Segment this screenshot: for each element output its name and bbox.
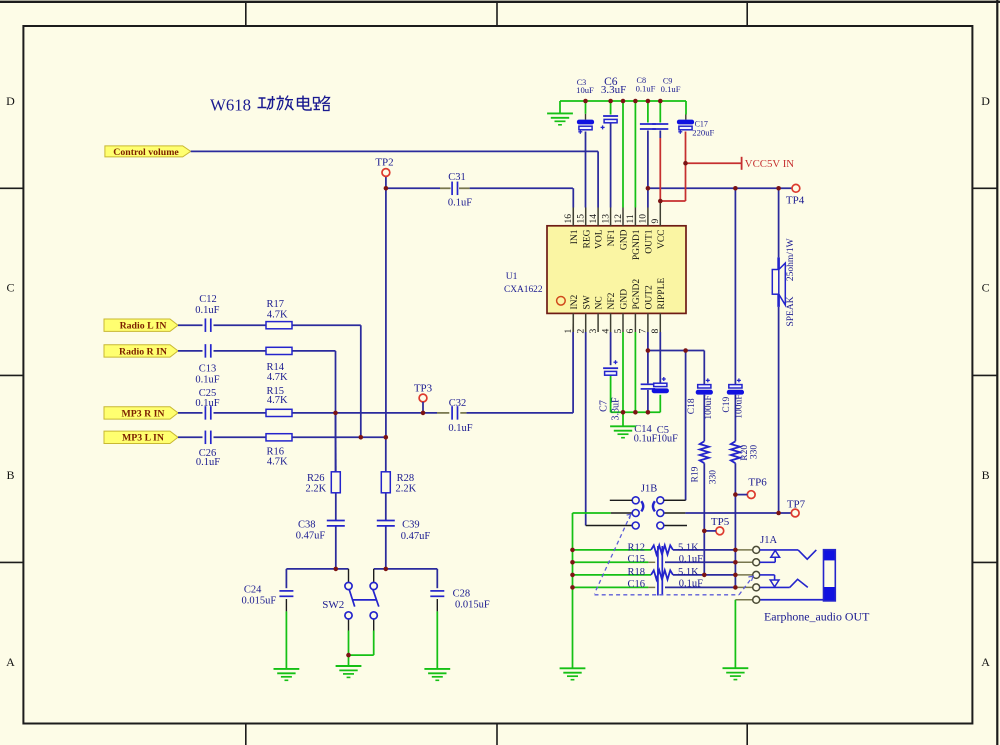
resistor R12 bbox=[627, 542, 699, 554]
svg-text:8: 8 bbox=[651, 329, 661, 334]
test point TP7 bbox=[787, 499, 806, 517]
svg-text:10uF: 10uF bbox=[657, 433, 678, 444]
svg-text:0.47uF: 0.47uF bbox=[296, 531, 326, 542]
svg-text:C32: C32 bbox=[449, 398, 467, 409]
svg-text:VOL: VOL bbox=[595, 229, 605, 249]
svg-text:16: 16 bbox=[564, 214, 574, 224]
svg-text:R17: R17 bbox=[266, 299, 284, 310]
svg-text:TP3: TP3 bbox=[414, 383, 433, 395]
svg-text:NF1: NF1 bbox=[607, 229, 617, 246]
wire TP2 vertical bbox=[385, 177, 387, 438]
capacitor C17 bbox=[677, 119, 715, 137]
svg-text:PGND1: PGND1 bbox=[632, 229, 642, 260]
capacitor C25 bbox=[195, 388, 219, 419]
svg-text:5: 5 bbox=[614, 329, 624, 334]
resistor R16 bbox=[266, 434, 292, 468]
wire OUT2 to J1B row1 bbox=[664, 351, 686, 501]
svg-text:4.7K: 4.7K bbox=[267, 395, 288, 406]
wire green GND row bbox=[611, 395, 661, 427]
svg-text:2.2K: 2.2K bbox=[396, 484, 417, 495]
svg-text:15: 15 bbox=[577, 214, 587, 224]
wire C19-R20 bbox=[734, 395, 736, 588]
svg-text:0.015uF: 0.015uF bbox=[455, 600, 490, 611]
resistor R17 bbox=[266, 299, 292, 329]
svg-text:0.1uF: 0.1uF bbox=[195, 375, 219, 386]
connector J1B bbox=[610, 484, 686, 529]
label Earphone_audio OUT bbox=[764, 610, 870, 624]
svg-text:C12: C12 bbox=[199, 294, 217, 305]
svg-text:3.3uF: 3.3uF bbox=[601, 84, 626, 96]
wire C6 to pin13 bbox=[610, 101, 612, 208]
wire pin16 stub bbox=[572, 208, 574, 226]
svg-text:R19: R19 bbox=[690, 466, 700, 482]
wire Control volume to pin14 bbox=[191, 151, 598, 207]
wire pin11 PGND1 bbox=[634, 101, 636, 208]
wire pin7 OUT2 bbox=[647, 332, 649, 412]
wire SW2 right net bbox=[374, 569, 438, 588]
svg-text:U1: U1 bbox=[506, 271, 518, 282]
wire RadioR row bbox=[178, 350, 266, 352]
svg-text:4.7K: 4.7K bbox=[267, 372, 288, 383]
wire C18-R19 bbox=[703, 395, 705, 575]
svg-text:MP3 R IN: MP3 R IN bbox=[122, 408, 165, 419]
svg-text:0.1uF: 0.1uF bbox=[679, 579, 703, 590]
svg-text:SPEAK: SPEAK bbox=[786, 296, 796, 326]
wire pin8 RIPPLE to C5 bbox=[659, 332, 661, 383]
wire C19 column top bbox=[734, 188, 736, 384]
svg-text:SW2: SW2 bbox=[322, 599, 344, 611]
svg-text:0.1uF: 0.1uF bbox=[195, 398, 219, 409]
wire MP3R row bbox=[178, 332, 573, 413]
svg-text:25ohm/1W: 25ohm/1W bbox=[786, 238, 796, 281]
capacitor C5 bbox=[652, 377, 678, 444]
wire green left column bbox=[572, 513, 574, 668]
svg-text:11: 11 bbox=[626, 214, 636, 223]
wire SW2 left net bbox=[286, 569, 348, 588]
wire olive stubs C32 bbox=[437, 412, 466, 414]
svg-text:RIPPLE: RIPPLE bbox=[657, 278, 667, 310]
wire speaker bottom bbox=[778, 307, 780, 513]
svg-text:TP5: TP5 bbox=[711, 516, 730, 528]
svg-text:NC: NC bbox=[595, 296, 605, 309]
wire C28 ground bbox=[436, 599, 438, 669]
wire C9 red VCC bbox=[660, 101, 741, 201]
capacitor C24 bbox=[242, 584, 294, 606]
wire RadioL vertical bbox=[292, 325, 361, 437]
svg-text:C: C bbox=[982, 281, 990, 295]
wire olive stubs C31 bbox=[440, 187, 470, 189]
svg-text:C39: C39 bbox=[402, 520, 420, 531]
capacitor C15 bbox=[627, 546, 703, 596]
svg-text:0.1uF: 0.1uF bbox=[634, 433, 658, 444]
svg-text:OUT1: OUT1 bbox=[645, 229, 655, 254]
port Control volume bbox=[105, 146, 191, 158]
wire OUT2 horizontal row bbox=[648, 351, 704, 385]
svg-text:Radio L IN: Radio L IN bbox=[120, 321, 167, 332]
capacitor C12 bbox=[195, 294, 219, 332]
svg-text:IN2: IN2 bbox=[570, 294, 580, 309]
svg-text:330: 330 bbox=[709, 470, 719, 485]
port Radio L IN bbox=[104, 319, 178, 332]
svg-text:2: 2 bbox=[577, 329, 587, 334]
svg-text:100uF: 100uF bbox=[704, 395, 714, 419]
svg-text:100uF: 100uF bbox=[735, 394, 745, 418]
resistor R19 bbox=[690, 441, 718, 484]
wire C3 to pin15 bbox=[585, 101, 587, 208]
svg-text:D: D bbox=[981, 94, 990, 108]
capacitor C16 bbox=[627, 579, 703, 590]
resistor R14 bbox=[266, 347, 292, 383]
wire pin1 stub bbox=[572, 313, 574, 332]
resistor R18 bbox=[627, 567, 699, 580]
test point TP6 bbox=[735, 477, 767, 499]
svg-text:0.1uF: 0.1uF bbox=[195, 305, 219, 316]
svg-text:330: 330 bbox=[750, 445, 760, 460]
svg-text:3: 3 bbox=[589, 329, 599, 334]
svg-text:C13: C13 bbox=[199, 363, 217, 374]
svg-text:C19: C19 bbox=[722, 397, 732, 413]
svg-text:TP6: TP6 bbox=[748, 477, 767, 489]
wire pin12 GND bbox=[622, 101, 624, 208]
svg-text:GND: GND bbox=[620, 229, 630, 250]
capacitor C14 bbox=[634, 384, 658, 444]
svg-text:W618: W618 bbox=[210, 96, 251, 115]
port MP3 L IN bbox=[104, 431, 178, 444]
resistor R20 bbox=[731, 441, 760, 463]
svg-text:C7: C7 bbox=[598, 400, 609, 412]
svg-text:C38: C38 bbox=[298, 520, 316, 531]
svg-text:0.1uF: 0.1uF bbox=[196, 457, 220, 468]
capacitor C38 bbox=[296, 520, 345, 542]
svg-text:C15: C15 bbox=[627, 554, 645, 565]
svg-text:C16: C16 bbox=[627, 579, 645, 590]
svg-text:VCC5V IN: VCC5V IN bbox=[745, 158, 794, 170]
svg-text:C: C bbox=[6, 281, 14, 295]
wire green rail bbox=[560, 101, 686, 120]
wire R28 chain bbox=[385, 437, 387, 569]
svg-text:R26: R26 bbox=[307, 473, 325, 484]
svg-text:5.1K: 5.1K bbox=[678, 567, 699, 578]
svg-text:2.2K: 2.2K bbox=[306, 484, 327, 495]
svg-text:J1A: J1A bbox=[760, 535, 777, 546]
svg-text:10: 10 bbox=[639, 214, 649, 224]
capacitor C32 bbox=[448, 398, 472, 434]
connector J1A bbox=[753, 535, 836, 603]
svg-text:B: B bbox=[982, 468, 990, 482]
svg-text:A: A bbox=[981, 655, 990, 669]
power port VCC5V IN bbox=[742, 157, 795, 170]
switch SW2 bbox=[322, 582, 379, 619]
svg-text:220uF: 220uF bbox=[692, 128, 714, 138]
test point TP4 bbox=[786, 184, 805, 206]
svg-text:Radio R IN: Radio R IN bbox=[119, 346, 167, 357]
wire row D bbox=[573, 586, 753, 588]
wire pin2 SW to J1B bbox=[586, 332, 633, 526]
capacitor C28 bbox=[430, 588, 490, 610]
svg-text:Control volume: Control volume bbox=[113, 147, 179, 158]
wire C24 ground bbox=[285, 599, 287, 669]
capacitor C39 bbox=[377, 520, 431, 543]
wire pin5 GND bbox=[622, 332, 624, 412]
svg-text:TP7: TP7 bbox=[787, 499, 806, 511]
resistor R15 bbox=[266, 386, 292, 417]
svg-text:7: 7 bbox=[639, 329, 649, 334]
svg-text:R12: R12 bbox=[627, 542, 645, 553]
wire row E bbox=[735, 600, 823, 668]
svg-text:TP2: TP2 bbox=[375, 157, 393, 169]
svg-text:0.1uF: 0.1uF bbox=[448, 198, 472, 209]
wire J1B row3 right stub bbox=[664, 525, 687, 527]
svg-text:MP3 L IN: MP3 L IN bbox=[122, 433, 164, 444]
wire R26 chain bbox=[335, 413, 337, 569]
svg-text:VCC: VCC bbox=[657, 230, 667, 250]
svg-text:C28: C28 bbox=[453, 588, 471, 599]
wire RadioR vertical bbox=[292, 351, 336, 472]
svg-text:5.1K: 5.1K bbox=[678, 542, 699, 553]
speaker SPEAK 25ohm/1W bbox=[772, 238, 796, 326]
ground under J1A bbox=[723, 668, 749, 679]
ground under SW2 bbox=[336, 666, 362, 677]
capacitor C19 bbox=[722, 378, 744, 418]
svg-text:4: 4 bbox=[601, 329, 611, 334]
svg-text:A: A bbox=[6, 655, 15, 669]
svg-text:R28: R28 bbox=[397, 473, 415, 484]
capacitor C7 bbox=[598, 360, 621, 420]
wire pin4 NF2 to C7 bbox=[610, 332, 612, 412]
svg-text:3.3uF: 3.3uF bbox=[611, 397, 622, 421]
ground under C24 bbox=[274, 669, 300, 680]
capacitor C13 bbox=[195, 344, 219, 385]
wire speaker top bbox=[778, 188, 780, 257]
capacitor C8 bbox=[636, 76, 656, 129]
svg-text:J1B: J1B bbox=[641, 484, 657, 495]
svg-text:PGND2: PGND2 bbox=[632, 279, 642, 310]
ground under C28 bbox=[424, 669, 450, 680]
wire MP3L row bbox=[178, 436, 386, 438]
svg-text:12: 12 bbox=[614, 214, 624, 224]
test point TP2 bbox=[375, 157, 393, 177]
svg-text:IN1: IN1 bbox=[570, 229, 580, 244]
resistor R28 bbox=[381, 472, 416, 495]
wire SW2 bottom bbox=[349, 619, 374, 666]
wire row A bbox=[573, 549, 753, 551]
svg-text:OUT2: OUT2 bbox=[645, 285, 655, 310]
svg-text:C31: C31 bbox=[448, 172, 466, 183]
svg-text:6: 6 bbox=[626, 329, 636, 334]
port Radio R IN bbox=[104, 345, 178, 358]
capacitor C31 bbox=[448, 172, 472, 209]
port MP3 R IN bbox=[104, 407, 178, 420]
svg-text:0.1uF: 0.1uF bbox=[636, 83, 656, 93]
ground under C7 row bbox=[610, 426, 636, 437]
svg-text:R20: R20 bbox=[740, 445, 750, 461]
svg-text:B: B bbox=[6, 468, 14, 482]
svg-text:0.1uF: 0.1uF bbox=[448, 423, 472, 434]
wire J1B row2 left bbox=[573, 512, 633, 514]
svg-text:9: 9 bbox=[651, 219, 661, 224]
svg-text:SW: SW bbox=[582, 295, 592, 309]
capacitor C9 bbox=[652, 77, 680, 129]
wire TP2 net y188 bbox=[386, 188, 573, 207]
svg-text:13: 13 bbox=[601, 214, 611, 224]
zone letters D C B A bbox=[6, 94, 990, 669]
capacitor C3 bbox=[576, 78, 594, 134]
svg-text:Earphone_audio OUT: Earphone_audio OUT bbox=[764, 610, 870, 624]
svg-text:D: D bbox=[6, 94, 15, 108]
test point TP3 bbox=[414, 383, 433, 413]
svg-text:TP4: TP4 bbox=[786, 195, 805, 207]
ground top rail bbox=[547, 113, 573, 124]
wire RadioL row bbox=[178, 324, 266, 326]
test point TP5 bbox=[704, 516, 729, 535]
wire row C bbox=[573, 574, 753, 576]
dashed link switch to jack bbox=[595, 514, 754, 595]
svg-text:CXA1622: CXA1622 bbox=[504, 285, 543, 295]
svg-text:REG: REG bbox=[582, 229, 592, 248]
ground left column bbox=[560, 668, 586, 679]
svg-text:GND: GND bbox=[620, 289, 630, 310]
capacitor C18 bbox=[687, 378, 714, 419]
title W618 amplifier circuit bbox=[210, 96, 330, 115]
svg-text:0.1uF: 0.1uF bbox=[679, 554, 703, 565]
svg-text:4.7K: 4.7K bbox=[267, 456, 288, 467]
wire row B bbox=[573, 561, 753, 563]
svg-text:0.015uF: 0.015uF bbox=[242, 596, 277, 607]
svg-text:C18: C18 bbox=[687, 398, 697, 414]
svg-text:4.7K: 4.7K bbox=[267, 309, 288, 320]
svg-text:0.47uF: 0.47uF bbox=[401, 531, 431, 542]
op-amp U1 CXA1622 bbox=[504, 201, 686, 334]
svg-text:10uF: 10uF bbox=[576, 85, 594, 95]
wire pin6 PGND2 bbox=[634, 332, 636, 412]
wire J1B row2 right TP7 bbox=[664, 512, 792, 514]
svg-text:R18: R18 bbox=[627, 567, 645, 578]
capacitor C6 bbox=[601, 76, 627, 130]
wire C8 to pin10 bbox=[647, 101, 649, 208]
capacitor C26 bbox=[196, 431, 220, 468]
resistor R26 bbox=[306, 472, 341, 495]
svg-text:C24: C24 bbox=[244, 584, 262, 595]
wire OUT1 to TP4 bbox=[648, 187, 792, 189]
svg-text:1: 1 bbox=[564, 329, 574, 334]
svg-text:14: 14 bbox=[589, 214, 599, 224]
svg-text:NF2: NF2 bbox=[607, 292, 617, 309]
svg-text:0.1uF: 0.1uF bbox=[661, 84, 681, 94]
